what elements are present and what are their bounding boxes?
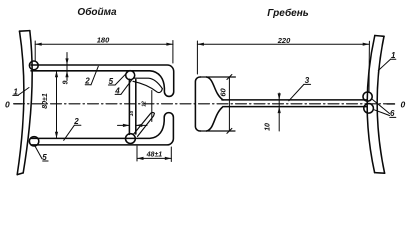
svg-text:80±1: 80±1 (42, 93, 49, 109)
svg-text:Гребень: Гребень (267, 7, 308, 19)
svg-text:0: 0 (5, 100, 10, 110)
dim 220 line (197, 43, 369, 45)
svg-text:1: 1 (391, 51, 396, 60)
dim 18 strip gap arrows (118, 124, 129, 126)
svg-text:5: 5 (109, 77, 114, 86)
flap lower lip (133, 112, 154, 136)
weld circle 5 top-left (29, 61, 38, 70)
dim 60 line (228, 77, 230, 131)
svg-text:48±1: 48±1 (146, 151, 163, 158)
svg-text:6: 6 (390, 109, 395, 118)
svg-text:3: 3 (305, 76, 310, 85)
label 0-dash left (14, 103, 21, 105)
comb bulb outline (195, 77, 200, 131)
shell band 1 right (367, 36, 375, 173)
dim 10 line (278, 93, 280, 131)
weld circle 6 lower (364, 104, 374, 114)
dim 180 extension lines (34, 41, 36, 61)
dim 60 extension lines (201, 76, 236, 78)
weld circle 5 bottom-left (29, 137, 38, 146)
label 0-dash right (387, 103, 395, 105)
dim 180 line (35, 43, 173, 45)
dim 12 line (151, 91, 153, 122)
weld circle bottom-mid (125, 134, 135, 144)
dim 220 extension line right (368, 41, 370, 92)
weld circle 5 top-mid (126, 71, 135, 80)
svg-text:5: 5 (42, 153, 47, 162)
axis centerline 0-0 (14, 103, 395, 105)
svg-text:0: 0 (401, 100, 406, 110)
strip 2 top bar (31, 65, 174, 96)
dim 48±1 extension lines (136, 146, 138, 161)
svg-text:2: 2 (73, 117, 79, 126)
svg-text:18: 18 (129, 111, 135, 117)
svg-text:2: 2 (84, 77, 90, 86)
svg-text:12: 12 (142, 101, 148, 107)
dim 220 extension line left (196, 41, 198, 74)
svg-text:180: 180 (97, 36, 110, 45)
weld circle 6 upper (363, 92, 372, 101)
svg-text:10: 10 (265, 123, 272, 131)
dim 80±1 line (56, 72, 58, 138)
svg-text:220: 220 (277, 36, 291, 45)
comb bar 3 (222, 99, 366, 101)
dim 48±1 line (137, 157, 171, 159)
svg-text:60: 60 (219, 88, 228, 97)
flap 4 upper lip (134, 78, 162, 88)
dim 9 line (66, 53, 68, 81)
strip 2 bottom bar (31, 113, 173, 145)
svg-text:9: 9 (63, 80, 70, 84)
svg-text:Обойма: Обойма (77, 6, 117, 18)
shell band 1 left (17, 31, 24, 174)
vertical strip wall (128, 79, 130, 134)
